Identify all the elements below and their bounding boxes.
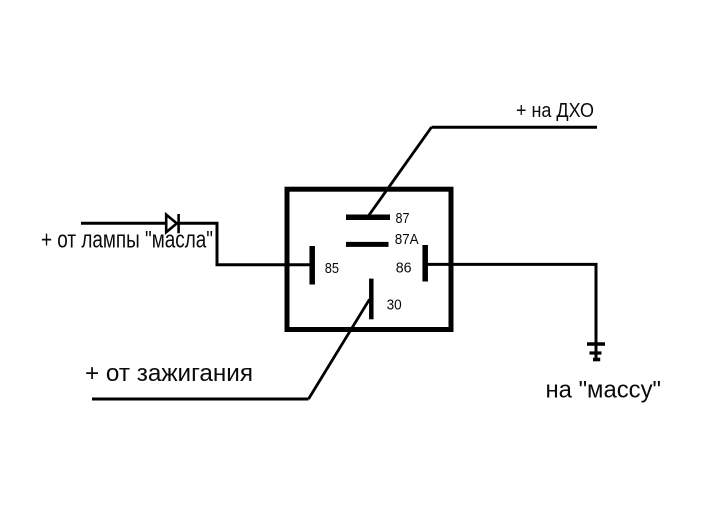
svg-text:+ от лампы "масла": + от лампы "масла" bbox=[41, 226, 213, 253]
relay body K1 bbox=[287, 189, 451, 329]
pin 30 contact bar bbox=[369, 279, 374, 320]
ground symbol bbox=[587, 344, 605, 360]
pin 86 contact bar bbox=[422, 245, 428, 282]
svg-text:87A: 87A bbox=[395, 232, 419, 248]
pin 87 contact bar bbox=[346, 215, 390, 221]
wire diode to corner bbox=[180, 223, 310, 264]
wire from oil lamp to diode anode bbox=[81, 222, 167, 225]
diode D1 triangle bbox=[166, 215, 177, 233]
wire from ignition bbox=[92, 398, 309, 401]
svg-text:на "массу": на "массу" bbox=[546, 376, 662, 403]
wire pin 86 to ground drop bbox=[428, 264, 597, 345]
pin 87A contact bar bbox=[346, 242, 389, 247]
diode D1 cathode bar bbox=[177, 214, 180, 233]
switch lever wire to pin 87 bbox=[368, 127, 432, 216]
wire to DRL (+ на ДХО) bbox=[432, 126, 598, 129]
switch lever wire to pin 30 bbox=[309, 299, 370, 399]
pin 85 contact bar bbox=[309, 246, 315, 285]
svg-text:86: 86 bbox=[396, 261, 412, 277]
svg-text:+ от зажигания: + от зажигания bbox=[85, 360, 253, 387]
svg-text:30: 30 bbox=[387, 297, 402, 313]
svg-text:87: 87 bbox=[396, 211, 410, 227]
svg-text:85: 85 bbox=[325, 261, 339, 277]
svg-text:+ на ДХО: + на ДХО bbox=[516, 100, 594, 122]
